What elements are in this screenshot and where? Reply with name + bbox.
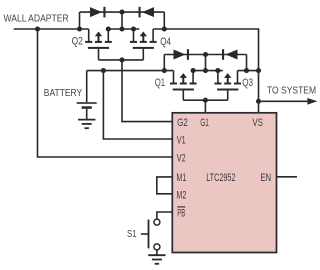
wire Q2 gate lead	[98, 49, 100, 60]
node system rail junction	[256, 68, 261, 73]
wire Q1 gate lead	[182, 91, 184, 101]
transistor Q2	[85, 26, 112, 48]
svg-text:BATTERY: BATTERY	[44, 88, 82, 99]
node Q1-Q3 rail / diode drop junction	[203, 68, 208, 73]
svg-text:Q3: Q3	[242, 77, 253, 89]
svg-text:PB: PB	[177, 207, 185, 219]
transistor Q3	[214, 68, 241, 90]
wire Q4 gate lead	[142, 49, 144, 60]
svg-text:EN: EN	[260, 172, 271, 184]
wire to system arrow	[259, 100, 310, 102]
wire G1 to IC	[204, 100, 206, 113]
svg-text:S1: S1	[127, 229, 137, 240]
wire G2 to IC	[122, 60, 172, 122]
wire diode row 2 center drop	[205, 55, 207, 71]
node wall/V2 junction	[35, 26, 40, 31]
wire Q4 output rail to system	[153, 29, 258, 113]
node wall/diode junction	[77, 26, 82, 31]
body diode (right, anode right)	[222, 49, 238, 60]
svg-text:Q2: Q2	[72, 36, 83, 48]
svg-text:V1: V1	[177, 135, 186, 147]
transistor Q4	[130, 26, 157, 48]
node G2 junction	[119, 57, 124, 62]
body diode (right, anode right)	[139, 7, 155, 18]
wire diode row 1 right drop	[163, 12, 165, 29]
wire V1 sense to IC	[103, 71, 172, 139]
wire Q3 output rail	[238, 70, 259, 72]
switch S1 pushbutton	[141, 219, 160, 250]
svg-text:LTC2952: LTC2952	[206, 172, 235, 184]
transistor Q1	[170, 68, 197, 90]
wire G1 gate interconnect	[183, 99, 227, 101]
PB overline	[177, 206, 185, 208]
node diode row 1 center	[119, 10, 124, 15]
battery B1	[77, 71, 97, 120]
wire rise to diode row 1	[79, 12, 81, 29]
body diode (left, anode left)	[90, 7, 106, 18]
wire EN output	[277, 176, 298, 178]
wire Q1-Q3 center rail	[191, 70, 223, 72]
wire diode row 2	[164, 54, 246, 56]
node diode row 2 center	[203, 52, 208, 57]
node battery/V1 junction	[101, 68, 106, 73]
svg-text:G1: G1	[200, 117, 209, 129]
node Q4 output / diode junction	[162, 26, 167, 31]
svg-text:Q1: Q1	[155, 77, 165, 89]
svg-text:TO SYSTEM: TO SYSTEM	[267, 85, 316, 96]
node battery/diode-row-2 junction	[162, 68, 167, 73]
node center rail / diode drop junction	[119, 26, 124, 31]
ground	[148, 255, 165, 264]
wire diode row 2 right drop	[246, 55, 248, 71]
wire diode row 2 left link	[163, 55, 165, 71]
svg-text:G2: G2	[177, 117, 188, 129]
arrowhead to system	[307, 98, 317, 105]
svg-text:M1: M1	[176, 172, 186, 184]
node system output junction	[256, 99, 261, 104]
wire Q3 gate lead	[227, 91, 229, 101]
wire PB to switch	[157, 212, 172, 219]
wire battery rail	[87, 70, 174, 72]
wire diode center drop	[121, 12, 123, 29]
wire diode row 1	[80, 11, 165, 13]
node G1 junction	[203, 98, 208, 103]
svg-text:WALL ADAPTER: WALL ADAPTER	[4, 14, 70, 25]
svg-text:M2: M2	[176, 190, 186, 202]
wire wall adapter input	[14, 28, 89, 30]
node diode row 2 corner junction	[244, 68, 249, 73]
IC U1 LTC2952 body	[172, 113, 276, 253]
wire Q2-Q4 center rail	[106, 28, 139, 30]
wire G2 gate interconnect	[99, 59, 144, 61]
svg-text:V2: V2	[177, 152, 186, 164]
ground	[78, 120, 95, 129]
body diode (left, anode left)	[174, 49, 190, 60]
wire M1-M2 link	[157, 177, 173, 194]
wire V2 sense from wall line	[38, 29, 173, 157]
svg-text:Q4: Q4	[160, 36, 171, 48]
svg-text:VS: VS	[253, 117, 263, 129]
wire switch to ground	[156, 250, 158, 255]
